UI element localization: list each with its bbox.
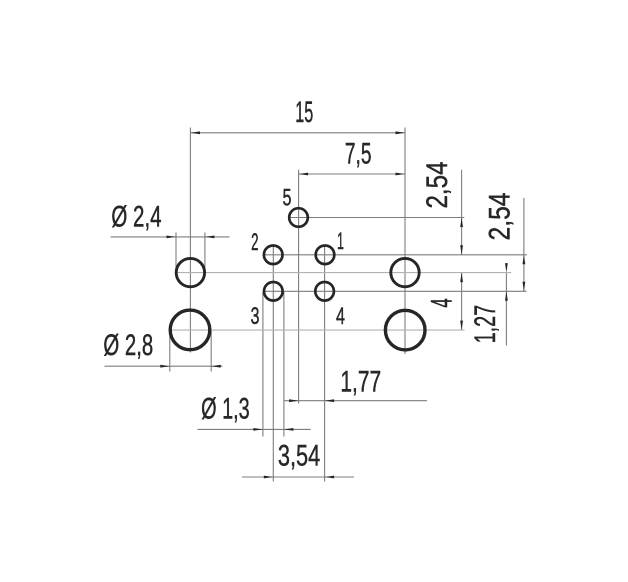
wire: dimension line 4 vertical x=461.6 — [461, 273, 463, 331]
arrow dia1.3 right — [284, 428, 294, 431]
svg-text:1: 1 — [337, 228, 344, 255]
svg-text:2: 2 — [251, 229, 258, 256]
wire: dia2.8 right tangent extension — [210, 331, 212, 372]
svg-text:Ø 2,4: Ø 2,4 — [111, 201, 161, 234]
arrow 1.27 top — [505, 263, 508, 273]
svg-text:3: 3 — [251, 303, 260, 330]
wire: row line through hole 5 to dim 2.54 — [288, 217, 464, 219]
svg-text:4: 4 — [426, 298, 459, 307]
svg-text:2,54: 2,54 — [484, 193, 517, 241]
hole dia 2.8 left — [170, 310, 210, 350]
arrow 3.54 right — [325, 476, 335, 479]
wire: dimension line dia 2.8 — [105, 365, 223, 367]
arrow dia1.3 left — [253, 428, 263, 431]
arrow 2.54 upper top — [460, 218, 463, 228]
svg-text:4: 4 — [336, 303, 345, 330]
arrow 1.77 left — [289, 399, 299, 402]
svg-text:5: 5 — [283, 185, 292, 212]
arrow dia2.4 right — [205, 236, 215, 239]
wire: right column centerline / extension x=405 — [404, 128, 406, 355]
svg-text:2,54: 2,54 — [421, 162, 454, 209]
arrow 3.54 left — [264, 476, 274, 479]
wire: dimension line 7.5 horizontal — [299, 173, 405, 175]
arrow 2.54 upper bottom — [460, 245, 463, 255]
wire: dia2.4 right tangent extension — [204, 233, 206, 269]
svg-text:3,54: 3,54 — [278, 439, 320, 472]
svg-text:Ø 1,3: Ø 1,3 — [201, 392, 250, 425]
wire: dimension line 3.54 — [242, 476, 354, 478]
wire: dimension line 2.54 lower with leader x=523.9 — [523, 198, 525, 291]
wire: center row light centerline y=272.6 — [175, 272, 511, 274]
arrow 4 top — [460, 273, 463, 283]
wire: dimension line dia 2.4 — [111, 236, 230, 238]
wire: dimension line 15 horizontal — [191, 132, 406, 134]
wire: dimension line 1.77 — [284, 400, 427, 402]
arrow 4 bottom — [460, 321, 463, 331]
svg-text:Ø 2,8: Ø 2,8 — [103, 329, 153, 362]
arrow dia2.8 left — [160, 365, 170, 368]
wire: dia2.4 left tangent extension — [175, 233, 177, 269]
hole 2 — [264, 246, 283, 265]
hole 1 — [316, 246, 335, 265]
arrow 2.54 lower top — [523, 255, 526, 264]
wire: dia1.3 left tangent extension — [262, 292, 264, 437]
wire: column line through holes 1 and 4 — [324, 246, 326, 482]
wire: dia1.3 right tangent extension — [283, 292, 285, 437]
hole 3 — [264, 282, 283, 301]
hole dia 2.4 left — [176, 258, 204, 286]
arrow dia2.4 left — [167, 236, 177, 239]
hole dia 2.4 right — [391, 258, 419, 286]
arrow 7.5 left — [299, 173, 309, 176]
arrow dia2.8 right — [211, 365, 221, 368]
svg-text:1,27: 1,27 — [469, 305, 502, 344]
arrow 1.27 bottom — [505, 291, 508, 301]
hole 5 — [289, 208, 308, 227]
svg-text:7,5: 7,5 — [345, 138, 372, 171]
wire: row line through holes 3,4 — [263, 290, 527, 292]
wire: dimension line 1.27 with leader x=506.4 — [505, 273, 507, 346]
hole dia 2.8 right — [385, 310, 425, 350]
wire: column line through holes 2 and 3 — [272, 246, 274, 482]
wire: dia2.8 left tangent extension — [169, 331, 171, 372]
arrow 15 right — [396, 131, 406, 134]
svg-text:1,77: 1,77 — [340, 366, 381, 399]
arrow 15 left — [191, 131, 201, 134]
wire: dimension line dia 1.3 — [198, 428, 311, 430]
wire: left column centerline / extension x=190.5 — [189, 128, 191, 353]
arrow 7.5 right — [396, 173, 406, 176]
arrow 2.54 lower bottom — [523, 282, 526, 292]
hole 4 — [315, 282, 334, 301]
wire: center column line through hole 5 — [298, 170, 300, 404]
svg-text:15: 15 — [295, 96, 313, 129]
wire: bottom row light centerline y=330 — [169, 329, 465, 331]
wire: dimension line 2.54 upper with leader x=461.6 — [461, 170, 463, 255]
arrow 1.77 right — [325, 399, 335, 402]
wire: row line through holes 1,2 — [263, 254, 527, 256]
